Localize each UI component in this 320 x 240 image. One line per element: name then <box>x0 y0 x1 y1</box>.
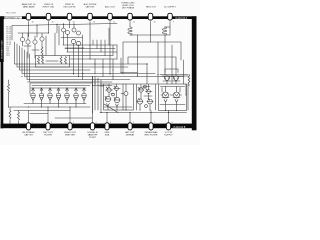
svg-text:14: 14 <box>73 22 75 24</box>
svg-text:15: 15 <box>52 22 54 24</box>
svg-text:FIG 4 CONT: FIG 4 CONT <box>6 12 17 14</box>
svg-text:SUB: SUB <box>105 134 110 136</box>
svg-text:5: 5 <box>110 122 111 124</box>
svg-text:POINT: POINT <box>89 137 96 139</box>
svg-text:CAP INT: CAP INT <box>24 133 33 136</box>
svg-text:DECOUPLE: DECOUPLE <box>63 7 76 9</box>
svg-text:DET PHASE: DET PHASE <box>122 6 135 9</box>
svg-text:AGC OUT: AGC OUT <box>105 6 116 9</box>
svg-text:10: 10 <box>154 22 156 24</box>
svg-text:CAP EXT: CAP EXT <box>85 6 95 9</box>
svg-text:DEFEAT: DEFEAT <box>126 133 135 136</box>
svg-text:EMITTER: EMITTER <box>65 134 75 136</box>
svg-text:8-243-02 B: 8-243-02 B <box>174 126 186 129</box>
svg-text:8-243-02 A: 8-243-02 A <box>176 17 188 20</box>
svg-text:REG OUT: REG OUT <box>146 7 157 9</box>
svg-text:SCHEMATIC DIAG: SCHEMATIC DIAG <box>1 40 4 59</box>
svg-text:13: 13 <box>93 22 95 24</box>
svg-text:INPUT CML: INPUT CML <box>43 7 56 9</box>
svg-text:7: 7 <box>154 122 155 124</box>
svg-text:16: 16 <box>32 22 34 24</box>
svg-text:2: 2 <box>51 122 52 124</box>
svg-text:B+ SUPPLY: B+ SUPPLY <box>164 7 176 9</box>
svg-text:3: 3 <box>73 122 74 124</box>
svg-text:6: 6 <box>133 122 134 124</box>
svg-text:8: 8 <box>172 122 173 124</box>
svg-text:FILTER: FILTER <box>44 134 52 136</box>
svg-text:4: 4 <box>96 122 97 124</box>
svg-text:SUPPLY: SUPPLY <box>164 134 173 136</box>
svg-text:REG FILTER: REG FILTER <box>145 134 158 136</box>
svg-text:SCHEMATIC N2: SCHEMATIC N2 <box>5 17 21 20</box>
svg-text:11: 11 <box>133 22 135 24</box>
svg-text:TANK BASE: TANK BASE <box>22 6 35 9</box>
svg-text:9: 9 <box>173 22 174 24</box>
svg-text:R14: R14 <box>6 55 9 57</box>
svg-text:1: 1 <box>32 122 33 124</box>
svg-text:12: 12 <box>113 22 115 24</box>
